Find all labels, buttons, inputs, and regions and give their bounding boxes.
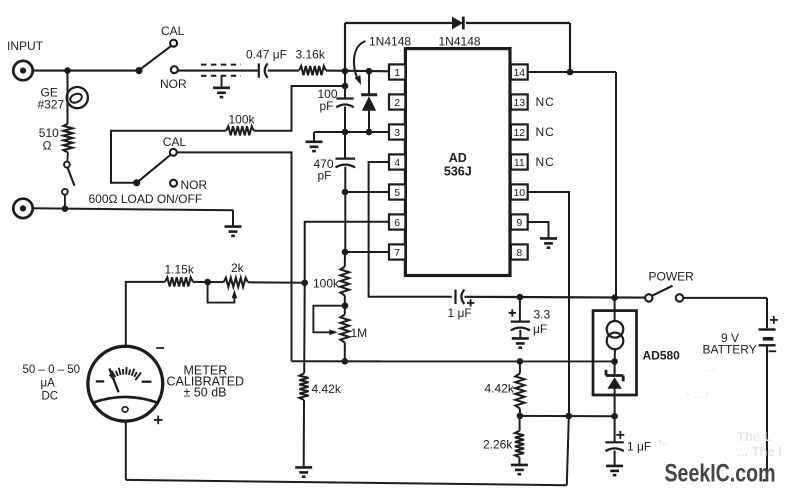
svg-text:The L: The L <box>737 429 772 444</box>
svg-text:... •: ... • <box>700 363 716 375</box>
svg-text:10: 10 <box>513 187 525 199</box>
svg-text:600Ω LOAD ON/OFF: 600Ω LOAD ON/OFF <box>89 192 203 206</box>
svg-text:3.3: 3.3 <box>534 308 551 322</box>
svg-text:100k: 100k <box>229 113 256 127</box>
svg-text:12: 12 <box>513 127 525 139</box>
svg-text:POWER: POWER <box>649 270 695 284</box>
svg-text:SeekIC.com: SeekIC.com <box>665 460 776 488</box>
svg-text:5: 5 <box>394 187 400 199</box>
svg-text:1N4148: 1N4148 <box>369 35 411 49</box>
svg-text:1 μF: 1 μF <box>448 306 472 320</box>
svg-text:4.42k: 4.42k <box>485 382 515 396</box>
svg-text:NC: NC <box>536 155 555 169</box>
svg-text:1 μF: 1 μF <box>627 440 651 454</box>
svg-text:NC: NC <box>536 125 555 139</box>
svg-text:2.26k: 2.26k <box>483 438 513 452</box>
svg-text:1: 1 <box>394 67 400 79</box>
svg-text:Ω: Ω <box>43 139 52 153</box>
svg-text:pF: pF <box>318 169 332 183</box>
svg-text:4: 4 <box>394 157 400 169</box>
svg-text:7: 7 <box>394 247 400 259</box>
svg-text:CAL: CAL <box>163 135 187 149</box>
svg-text:6: 6 <box>394 217 400 229</box>
svg-text:AD: AD <box>449 151 467 165</box>
svg-text:536J: 536J <box>444 165 472 179</box>
svg-text:1N4148: 1N4148 <box>439 35 481 49</box>
svg-text:9: 9 <box>516 217 522 229</box>
svg-text:INPUT: INPUT <box>7 39 44 53</box>
svg-text:DC: DC <box>42 391 59 403</box>
svg-text:1M: 1M <box>351 326 368 340</box>
svg-text:pF: pF <box>320 99 334 113</box>
svg-text:11: 11 <box>514 157 525 169</box>
svg-text:8: 8 <box>516 247 522 259</box>
svg-text:μF: μF <box>533 322 547 336</box>
svg-text:#327: #327 <box>38 98 65 112</box>
svg-text:14: 14 <box>513 67 525 79</box>
svg-text:3: 3 <box>394 127 400 139</box>
svg-text:• ... •: • ... • <box>686 389 709 401</box>
svg-text:1.15k: 1.15k <box>165 263 195 277</box>
svg-text:•..: •.. <box>658 434 669 448</box>
svg-text:100k: 100k <box>313 277 340 291</box>
svg-text:NC: NC <box>536 95 555 109</box>
svg-text:NOR: NOR <box>160 77 187 91</box>
svg-text:50 – 0 – 50: 50 – 0 – 50 <box>23 364 81 376</box>
svg-text:CAL: CAL <box>161 24 185 38</box>
svg-text:3.16k: 3.16k <box>296 48 326 62</box>
svg-text:... The I: ... The I <box>737 444 782 459</box>
svg-text:4.42k: 4.42k <box>312 382 342 396</box>
svg-text:μA: μA <box>41 378 56 390</box>
svg-text:13: 13 <box>513 97 525 109</box>
svg-text:0.47 μF: 0.47 μF <box>246 48 287 62</box>
svg-text:NOR: NOR <box>181 178 208 192</box>
svg-text:2k: 2k <box>231 261 245 275</box>
svg-text:AD580: AD580 <box>643 349 681 363</box>
svg-text:± 50 dB: ± 50 dB <box>184 385 227 399</box>
svg-text:2: 2 <box>394 97 400 109</box>
svg-text:BATTERY: BATTERY <box>703 343 757 357</box>
